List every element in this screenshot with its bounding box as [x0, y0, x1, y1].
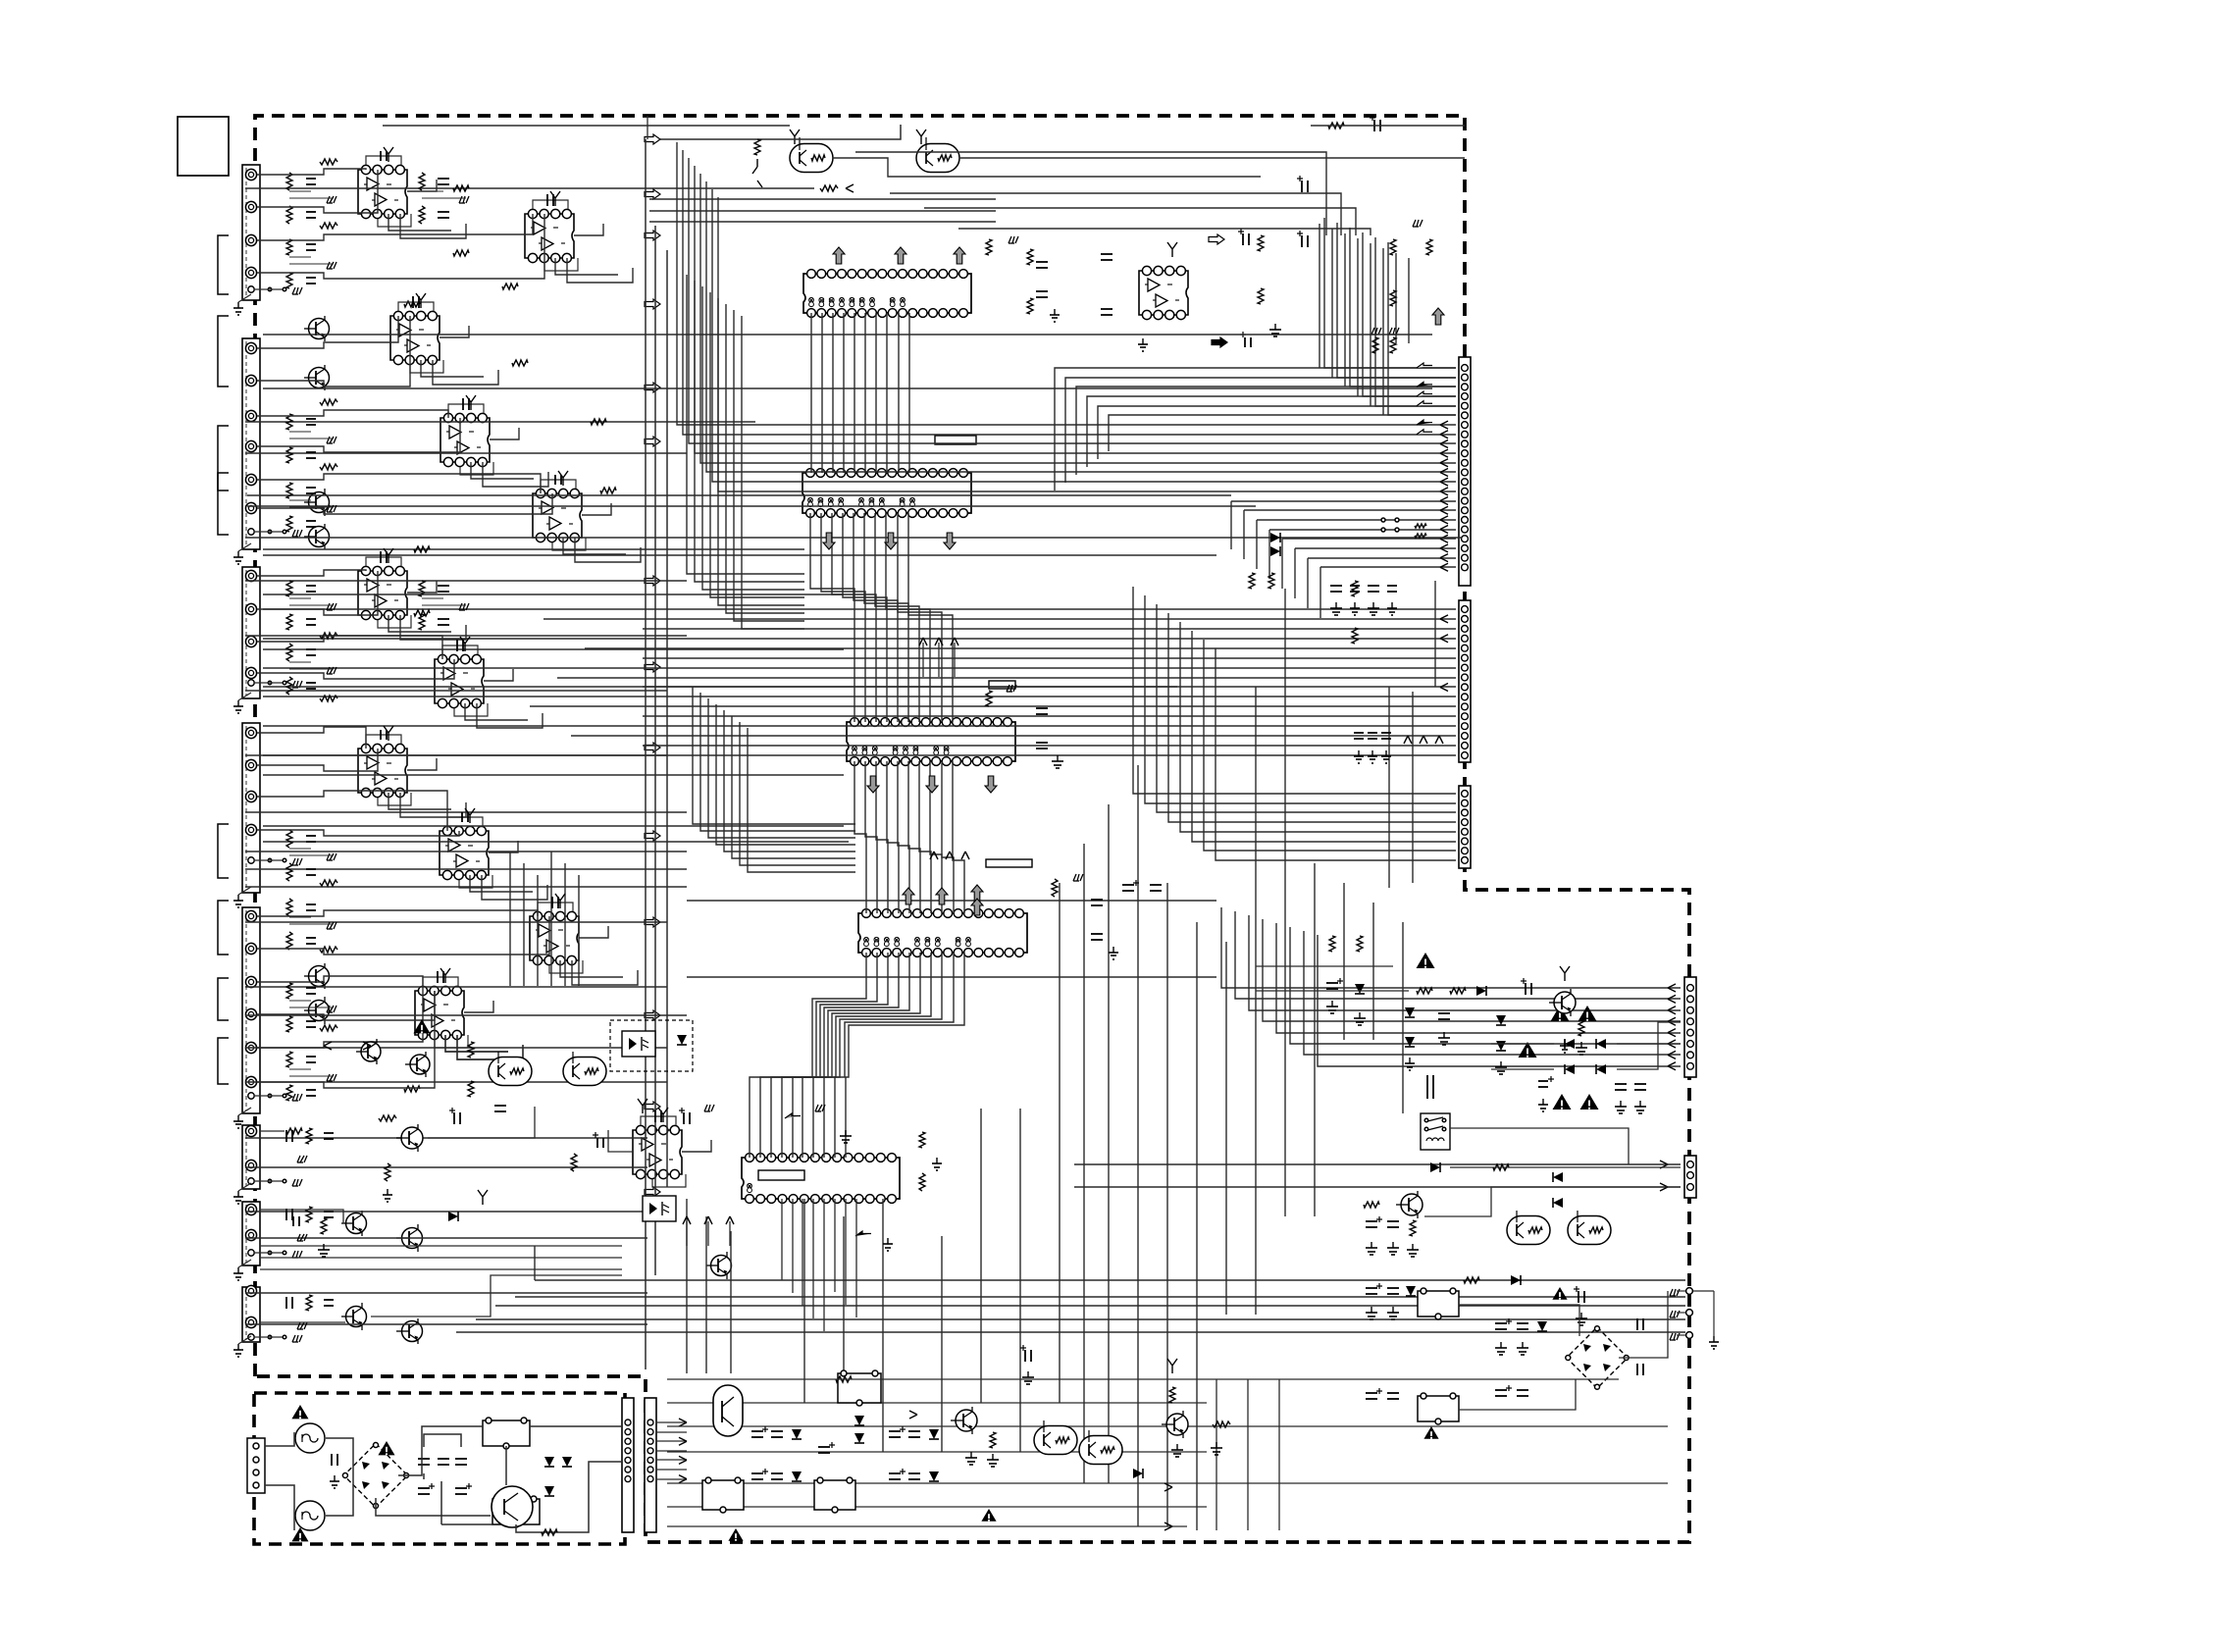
resistor — [542, 1529, 557, 1535]
cap cluster2 — [889, 1430, 901, 1432]
block arrow/ecap — [1209, 234, 1224, 244]
elbow bundle2 — [724, 710, 855, 852]
signal wire — [245, 690, 667, 692]
RC filter — [419, 581, 425, 596]
transistor — [346, 1307, 367, 1327]
resistor — [404, 1086, 420, 1092]
op-amp U2 — [525, 214, 574, 258]
wire — [667, 1378, 1619, 1380]
bus wire — [1074, 1163, 1681, 1165]
bus wire — [875, 313, 877, 473]
op-amp U7 — [435, 659, 484, 703]
bus wire — [1180, 622, 1456, 832]
opamp output — [489, 841, 518, 852]
bus wire — [908, 761, 920, 913]
signal wire — [245, 754, 667, 756]
nested corner wire — [855, 152, 1326, 235]
bus wire — [919, 761, 931, 913]
bus wire — [1337, 223, 1456, 378]
relay RY2 — [492, 1499, 540, 1524]
bus wire — [1235, 911, 1681, 999]
cap — [1101, 253, 1112, 255]
opamp feedback — [641, 1116, 676, 1125]
signal wire — [245, 421, 755, 423]
cap bank — [418, 1458, 430, 1460]
wire — [1619, 1291, 1668, 1358]
vert bundle — [1344, 233, 1346, 387]
wire — [428, 1107, 535, 1138]
bus wire — [543, 618, 1456, 620]
bus wire — [643, 745, 1456, 747]
signal wire — [245, 811, 687, 813]
RC filter — [285, 1209, 287, 1220]
module wiring — [257, 575, 289, 577]
elbow bundle2 — [748, 728, 855, 872]
transistor — [401, 1127, 423, 1149]
RC filter — [286, 414, 292, 430]
group bracket — [218, 978, 229, 1020]
bus wire — [1304, 931, 1681, 1055]
opamp feedback — [447, 817, 483, 826]
opamp output — [407, 581, 437, 593]
resistor — [512, 360, 528, 366]
res — [1364, 1202, 1379, 1208]
cap — [1387, 1220, 1399, 1222]
transistor Q20 — [1401, 1194, 1423, 1215]
nested corner wire — [958, 229, 1371, 235]
bus wire — [263, 754, 1456, 756]
gnd row — [1409, 1058, 1411, 1063]
wire — [260, 1130, 285, 1132]
stub — [1167, 242, 1177, 257]
module wiring — [257, 796, 289, 798]
long vertical — [1319, 567, 1321, 618]
opamp cap — [380, 730, 382, 740]
bus wire — [802, 953, 920, 1158]
opamp feedback — [541, 480, 576, 489]
signal wire — [263, 334, 1432, 336]
bottom box wire — [667, 1425, 1668, 1427]
wire — [441, 1523, 492, 1525]
ecap — [1578, 1291, 1579, 1303]
vert bundle — [1395, 253, 1397, 343]
transistor Q31 — [956, 1410, 977, 1431]
resistor — [1027, 249, 1033, 265]
signal arrow — [645, 437, 660, 446]
module wiring — [257, 1047, 289, 1049]
opamp feedback2 — [549, 960, 583, 973]
bottom box wire — [667, 1506, 1207, 1508]
bus wire — [908, 513, 953, 722]
gnd — [936, 1158, 938, 1163]
bus wire — [1216, 648, 1456, 860]
op-amp U10 — [530, 916, 579, 960]
wire — [245, 187, 814, 189]
resistor — [820, 185, 838, 191]
elbow bundle2 — [732, 716, 855, 858]
gnd — [1372, 602, 1374, 608]
diodes — [1553, 1198, 1563, 1208]
bus wire — [643, 715, 1456, 717]
res pair2 — [1249, 573, 1255, 589]
power transistor Q10 — [492, 1486, 533, 1527]
warning — [1417, 953, 1435, 968]
input jack strip J6 — [242, 1125, 260, 1189]
wire — [326, 1475, 353, 1516]
opamp wire — [608, 1130, 633, 1152]
opamp stub — [465, 808, 475, 823]
wire — [1311, 125, 1465, 127]
transistor Q1 — [790, 144, 833, 173]
arrowhead — [1668, 984, 1676, 992]
arrowhead — [1440, 615, 1448, 623]
signal wire — [245, 1166, 647, 1168]
module wiring — [257, 641, 289, 643]
gnd — [1335, 602, 1337, 608]
opto U21 — [643, 1196, 676, 1221]
arrowhead r — [1660, 1183, 1668, 1191]
opamp stub — [416, 293, 426, 308]
opamp output — [574, 224, 603, 235]
signal wire — [245, 851, 687, 852]
warn — [728, 1528, 743, 1541]
wire lower — [260, 1268, 622, 1270]
IC4 switch array — [858, 913, 1027, 953]
stub — [1167, 1359, 1177, 1373]
input jack strip J3 — [242, 567, 260, 698]
opamp cap — [551, 897, 553, 908]
bridge rectifier D1 — [343, 1443, 407, 1507]
bus wire — [835, 953, 954, 1158]
vert bundle — [1357, 238, 1359, 396]
connector CN3 — [1459, 786, 1471, 868]
long vertical — [730, 1231, 732, 1373]
long vertical — [941, 1236, 943, 1452]
block arrow — [1417, 382, 1432, 387]
long vertical — [1256, 568, 1258, 570]
wire — [516, 1462, 622, 1532]
res — [286, 1128, 302, 1134]
arrow up shade — [833, 247, 845, 264]
stub — [752, 159, 762, 187]
transistor — [361, 1042, 381, 1061]
arrowhead — [1440, 468, 1448, 476]
wire v — [647, 116, 648, 139]
arrowhead — [1440, 554, 1448, 562]
bus wire — [750, 953, 866, 1158]
arrowhead r — [1660, 1161, 1668, 1168]
transistor — [346, 1213, 367, 1234]
long vertical — [843, 1216, 845, 1403]
wire — [424, 1434, 461, 1447]
connector CN2 — [1459, 600, 1471, 762]
bus wire — [953, 761, 964, 913]
wire — [376, 1498, 491, 1516]
bus wire — [706, 181, 1456, 472]
bus wire — [1157, 604, 1456, 812]
signal arrow — [645, 134, 660, 144]
relay RY6 — [838, 1373, 881, 1403]
opamp feedback — [538, 903, 573, 911]
opamp cap — [456, 640, 458, 651]
opamp feedback — [442, 645, 478, 654]
resistor — [600, 488, 616, 493]
signal arrow — [645, 1102, 660, 1111]
wire lower — [260, 1257, 622, 1259]
bus wire — [1065, 378, 1456, 483]
IC5 pin drops — [781, 1199, 783, 1280]
wire — [922, 643, 924, 677]
bus wire — [1221, 907, 1681, 988]
bus wire — [700, 174, 1456, 463]
bus wire — [1204, 640, 1456, 851]
module wiring — [257, 981, 289, 983]
RC filter — [286, 983, 292, 999]
gnd — [387, 1189, 388, 1195]
resistor — [320, 1025, 337, 1031]
vert bundle — [1408, 258, 1410, 343]
wire — [260, 1210, 343, 1223]
cap/res — [292, 1216, 294, 1226]
gnd — [1354, 602, 1356, 608]
opamp stub — [558, 471, 568, 486]
opamp feedback2 — [552, 538, 586, 550]
resistor — [453, 185, 469, 191]
elbow bundle2 — [700, 693, 855, 831]
arrowhead — [1440, 635, 1448, 643]
wire — [260, 1321, 345, 1323]
arrowhead — [1440, 506, 1448, 514]
wire — [959, 157, 1465, 159]
arrow up shade2 — [903, 888, 914, 904]
resistor — [414, 546, 430, 552]
bus wire — [1074, 1186, 1681, 1188]
diode — [1476, 986, 1486, 996]
ecaps2 — [1495, 1389, 1507, 1391]
bus wire — [930, 761, 942, 913]
arrowhead — [1440, 535, 1448, 542]
RC filter — [285, 1130, 287, 1142]
wire — [265, 1432, 294, 1446]
signal wire — [263, 594, 844, 595]
bus wire — [908, 313, 910, 473]
signal wire — [263, 686, 1177, 688]
resistor — [1390, 239, 1396, 255]
arrowhead — [1440, 497, 1448, 505]
RC filter — [286, 830, 292, 848]
bus wire — [585, 647, 1456, 649]
gnd — [323, 1244, 325, 1250]
ecap — [1373, 120, 1375, 131]
elbow bundle2 — [716, 704, 855, 845]
bottom box wire — [667, 1482, 1668, 1484]
resistor — [404, 301, 420, 307]
long vertical — [1434, 581, 1436, 687]
bus wire — [898, 761, 909, 913]
signal wire — [263, 554, 1216, 556]
input jack strip J4 — [242, 723, 260, 893]
arrowhead — [1440, 439, 1448, 447]
bus wire — [1249, 915, 1681, 1010]
resistor — [453, 250, 469, 256]
cap — [331, 1454, 333, 1466]
op-amp U8 — [358, 749, 407, 793]
transistor — [309, 966, 330, 987]
signal wire — [245, 1323, 647, 1325]
relay RY7 — [702, 1480, 744, 1510]
vert bundle — [1331, 229, 1333, 378]
opamp output — [490, 428, 519, 439]
arrowhead — [1668, 1029, 1676, 1037]
bridge rectifier D2 — [1567, 1327, 1628, 1388]
bus wire — [1375, 237, 1456, 406]
wire — [530, 1425, 622, 1427]
op-amp U6 — [358, 571, 407, 615]
signal wire — [245, 868, 687, 870]
opamp output — [440, 326, 469, 337]
stadium tr — [489, 1058, 532, 1086]
bus wire — [782, 953, 899, 1158]
opamp feedback2 — [544, 258, 578, 271]
bus wire — [695, 166, 1456, 453]
caps under CN2 — [1354, 732, 1364, 734]
bus wire — [1318, 935, 1681, 1066]
res/cap IC4 — [1052, 879, 1058, 897]
bus wire — [1269, 529, 1456, 531]
signal wire — [245, 537, 1462, 539]
ecap — [1366, 1220, 1377, 1222]
signal wire — [263, 825, 844, 827]
opamp stub — [466, 395, 476, 410]
wire lower — [260, 1245, 622, 1247]
wire — [1617, 1022, 1681, 1069]
diode quad — [1565, 1039, 1575, 1049]
bus wire — [1231, 500, 1456, 502]
signal arrow — [645, 662, 660, 672]
diode — [1511, 1275, 1521, 1285]
block arrow — [1417, 391, 1432, 396]
gnd — [887, 1238, 889, 1244]
bus wire — [1350, 228, 1456, 387]
gnd — [1391, 602, 1393, 608]
ecap/caps2 — [1366, 1392, 1377, 1394]
warning pair — [1551, 1006, 1570, 1021]
res — [919, 1132, 925, 1148]
opamp cap — [654, 1110, 656, 1122]
arrowhead — [1440, 544, 1448, 552]
signal arrow — [645, 576, 660, 586]
opamp cap — [461, 812, 463, 822]
long vertical — [686, 1199, 688, 1373]
long vertical — [1256, 520, 1258, 569]
signal wire — [687, 976, 1216, 978]
bus wire — [263, 638, 1456, 640]
wire — [1424, 1187, 1681, 1216]
bus wire — [1098, 406, 1456, 459]
relay RY1 — [483, 1420, 530, 1446]
bus wire — [643, 686, 1456, 688]
arrowhead — [1440, 488, 1448, 495]
opamp feedback — [423, 977, 458, 986]
arrowhead — [1440, 431, 1448, 439]
signal wire — [247, 494, 1231, 496]
gnd — [334, 1475, 336, 1481]
bus wire — [689, 158, 1456, 443]
bus wire — [832, 313, 834, 473]
arrow up — [1432, 308, 1444, 325]
wire — [1459, 1379, 1576, 1410]
arrowhead — [1440, 516, 1448, 524]
bus wire — [557, 677, 1456, 679]
transistor — [402, 1321, 423, 1342]
res pair — [1372, 337, 1378, 353]
IC3 switch array — [847, 722, 1015, 761]
res — [1410, 1220, 1416, 1236]
wire — [686, 1221, 688, 1246]
op-amp U9 — [440, 831, 489, 875]
res v pair CN2 — [1352, 581, 1358, 596]
module wiring — [257, 239, 289, 241]
bottom box wire — [667, 1525, 1187, 1527]
arrowhead — [1668, 1062, 1676, 1070]
signal arrow — [645, 189, 660, 199]
elbow bundle2 — [693, 687, 855, 824]
op-amp U11 — [415, 991, 464, 1035]
elbow bundle3 — [537, 875, 539, 986]
module wiring — [257, 915, 289, 917]
transistor — [410, 1055, 430, 1074]
transistor Q21 — [1554, 992, 1576, 1013]
signal wire — [687, 900, 1216, 902]
res — [571, 1154, 577, 1171]
opamp cap — [380, 151, 382, 161]
arrowhead — [1668, 1017, 1676, 1025]
res — [1464, 1277, 1479, 1283]
opamp stub — [384, 726, 393, 741]
resistor — [320, 633, 337, 639]
resistor — [320, 399, 337, 405]
nested corner wire — [924, 208, 1356, 235]
legend box — [178, 117, 229, 176]
diode dn — [1405, 1007, 1415, 1017]
bottom box vert — [1278, 1379, 1280, 1530]
bus wire — [760, 953, 877, 1158]
bus wire — [1324, 218, 1456, 368]
bus wire — [821, 313, 823, 473]
ahead — [909, 1411, 917, 1419]
transistor — [309, 368, 330, 388]
opamp feedback2 — [459, 875, 492, 888]
warn — [413, 1019, 430, 1033]
signal wire — [245, 1047, 667, 1049]
opamp feedback2 — [454, 703, 488, 716]
wire — [326, 1438, 353, 1475]
transistor — [402, 1228, 423, 1249]
bus wire — [843, 313, 845, 473]
RC filter — [286, 581, 292, 596]
bus wire — [1087, 396, 1456, 467]
wire h — [649, 221, 996, 223]
bus wire — [875, 513, 919, 722]
long vertical — [705, 1216, 707, 1373]
cap — [1438, 1012, 1450, 1014]
signal wire — [245, 452, 687, 454]
zener — [1355, 984, 1365, 994]
switch pair — [1381, 518, 1385, 522]
long vertical — [1372, 903, 1374, 1040]
gnds — [1542, 1099, 1544, 1105]
gnds — [1176, 1444, 1178, 1450]
